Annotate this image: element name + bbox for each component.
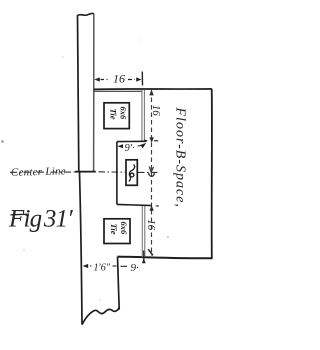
svg-text:16: 16 (145, 219, 157, 231)
svg-text:9′·: 9′· (125, 143, 136, 154)
svg-text:6x6: 6x6 (119, 107, 129, 121)
svg-text:1′6″: 1′6″ (94, 262, 111, 273)
svg-text:Tie: Tie (109, 224, 119, 235)
svg-text:16: 16 (113, 72, 125, 86)
svg-text:Floor-B-Space,: Floor-B-Space, (173, 107, 188, 208)
svg-text:Fig31′: Fig31′ (8, 206, 73, 233)
svg-text:Tie: Tie (109, 109, 119, 120)
svg-text:16: 16 (150, 105, 162, 117)
svg-text:Center Line: Center Line (11, 165, 66, 178)
svg-text:9·: 9· (131, 262, 140, 274)
svg-text:6x6: 6x6 (119, 222, 129, 236)
